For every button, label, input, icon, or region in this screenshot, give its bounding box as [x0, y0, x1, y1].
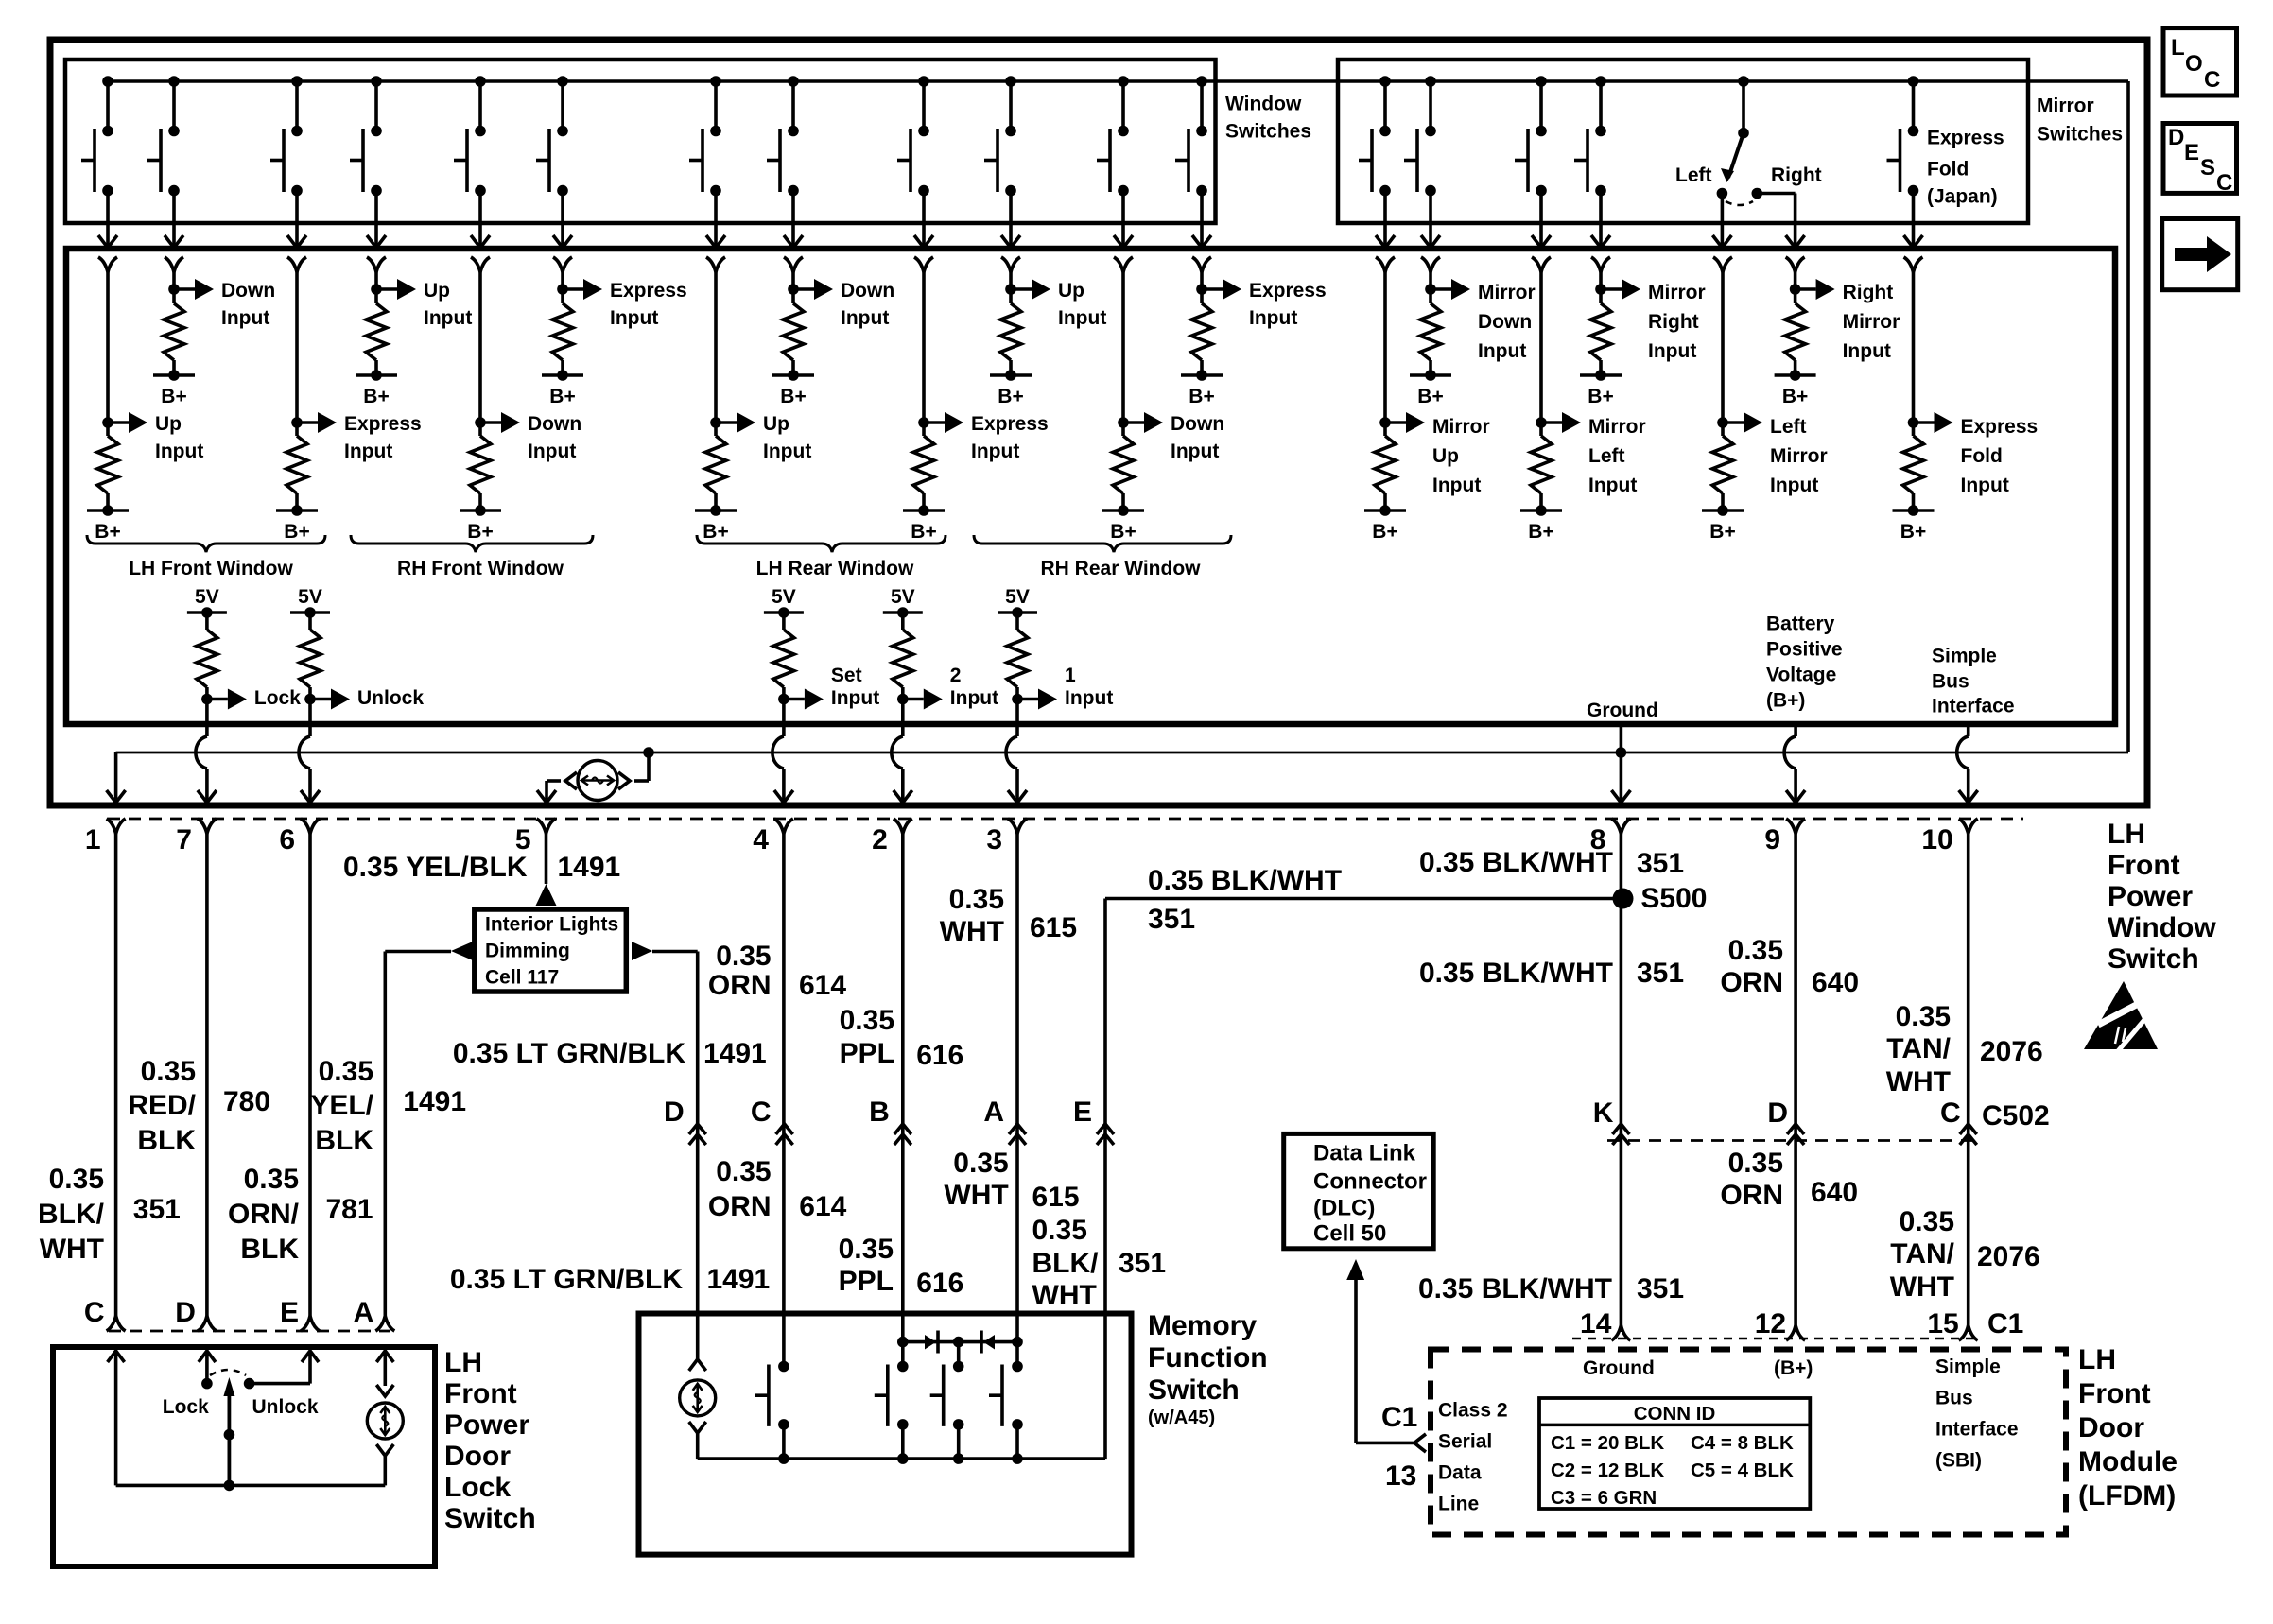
svg-text:1491: 1491: [707, 1264, 771, 1295]
svg-text:0.35: 0.35: [1728, 1148, 1783, 1179]
svg-text:Fold: Fold: [1927, 159, 1969, 181]
svg-text:14: 14: [1580, 1308, 1612, 1339]
svg-text:Power: Power: [444, 1409, 529, 1441]
svg-text:Set: Set: [831, 665, 862, 686]
svg-text:Cell 50: Cell 50: [1313, 1221, 1386, 1247]
svg-text:0.35 LT GRN/BLK: 0.35 LT GRN/BLK: [453, 1038, 685, 1069]
svg-text:0.35: 0.35: [1900, 1206, 1954, 1237]
svg-text:B+: B+: [549, 386, 575, 407]
svg-text:B+: B+: [703, 521, 728, 543]
svg-text:0.35: 0.35: [1032, 1215, 1087, 1246]
svg-text:B: B: [869, 1097, 890, 1128]
svg-text:Mirror: Mirror: [1478, 282, 1536, 303]
svg-text:Interior Lights: Interior Lights: [485, 914, 618, 936]
svg-text:Battery: Battery: [1766, 613, 1835, 635]
svg-text:2: 2: [950, 665, 962, 686]
svg-text:Input: Input: [1065, 687, 1113, 709]
svg-text:Module: Module: [2078, 1446, 2178, 1477]
svg-text:Memory: Memory: [1148, 1310, 1257, 1341]
svg-text:780: 780: [223, 1086, 270, 1117]
svg-text:RED/: RED/: [128, 1090, 196, 1121]
svg-text:Mirror: Mirror: [1588, 416, 1646, 438]
svg-text:C3 = 6 GRN: C3 = 6 GRN: [1551, 1487, 1657, 1509]
svg-text:D: D: [1767, 1097, 1788, 1129]
svg-text:13: 13: [1385, 1460, 1416, 1492]
svg-text:WHT: WHT: [944, 1180, 1008, 1211]
svg-text:B+: B+: [1782, 386, 1808, 407]
svg-text:Lock: Lock: [163, 1396, 209, 1418]
svg-text:B+: B+: [1417, 386, 1443, 407]
svg-text:Ground: Ground: [1583, 1357, 1655, 1379]
svg-text:(B+): (B+): [1774, 1357, 1813, 1379]
svg-text:12: 12: [1755, 1308, 1786, 1339]
svg-text:Interface: Interface: [1932, 696, 2015, 717]
svg-text:B+: B+: [911, 521, 936, 543]
svg-text:Up: Up: [1058, 280, 1084, 302]
svg-text:Lock: Lock: [254, 687, 301, 709]
svg-text:C502: C502: [1982, 1100, 2050, 1132]
svg-text:Voltage: Voltage: [1766, 665, 1836, 686]
svg-text:Switches: Switches: [1225, 121, 1311, 143]
svg-text:Switch: Switch: [2108, 943, 2199, 975]
svg-text:2076: 2076: [1977, 1241, 2040, 1272]
svg-text:D: D: [664, 1097, 685, 1128]
svg-text:0.35: 0.35: [716, 1156, 771, 1187]
svg-text:WHT: WHT: [1032, 1280, 1097, 1311]
svg-text:B+: B+: [780, 386, 806, 407]
svg-text:C1: C1: [1381, 1402, 1417, 1433]
svg-text:351: 351: [1637, 1273, 1684, 1304]
svg-text:Input: Input: [971, 441, 1019, 462]
svg-text:0.35 BLK/WHT: 0.35 BLK/WHT: [1419, 958, 1613, 989]
svg-text:WHT: WHT: [940, 916, 1004, 947]
svg-text:0.35: 0.35: [839, 1234, 894, 1265]
svg-text:0.35 YEL/BLK: 0.35 YEL/BLK: [343, 852, 528, 883]
svg-text:D: D: [2168, 125, 2184, 150]
svg-text:Door: Door: [2078, 1412, 2144, 1443]
svg-text:LH: LH: [2108, 819, 2145, 850]
svg-text:0.35 BLK/WHT: 0.35 BLK/WHT: [1418, 1273, 1612, 1304]
svg-text:E: E: [280, 1297, 299, 1328]
svg-text:Class 2: Class 2: [1438, 1400, 1508, 1422]
svg-text:Left: Left: [1675, 164, 1712, 186]
svg-text:Down: Down: [221, 280, 275, 302]
svg-text:C1: C1: [1987, 1308, 2023, 1339]
svg-text:Cell 117: Cell 117: [485, 967, 559, 989]
svg-text:5V: 5V: [195, 586, 219, 608]
svg-text:WHT: WHT: [40, 1234, 104, 1265]
svg-text:C5 = 4 BLK: C5 = 4 BLK: [1691, 1460, 1794, 1481]
svg-text:Mirror: Mirror: [2037, 95, 2094, 117]
svg-text:PPL: PPL: [840, 1038, 894, 1069]
svg-text:1491: 1491: [403, 1086, 466, 1117]
svg-text:Input: Input: [950, 687, 998, 709]
svg-text:B+: B+: [998, 386, 1023, 407]
svg-text:0.35: 0.35: [141, 1056, 196, 1087]
svg-text:Door: Door: [444, 1441, 511, 1472]
svg-text:Input: Input: [763, 441, 811, 462]
svg-text:ORN: ORN: [1720, 967, 1783, 998]
svg-text:Input: Input: [1478, 340, 1526, 362]
svg-text:B+: B+: [1588, 386, 1613, 407]
svg-text:B+: B+: [467, 521, 493, 543]
svg-text:351: 351: [1637, 848, 1684, 879]
svg-text:615: 615: [1032, 1182, 1080, 1213]
svg-text:614: 614: [799, 1191, 846, 1222]
svg-text:Bus: Bus: [1932, 671, 1969, 693]
svg-text:Unlock: Unlock: [357, 687, 424, 709]
svg-text:Front: Front: [2108, 850, 2180, 881]
svg-text:Window: Window: [2108, 912, 2216, 943]
svg-text:BLK/: BLK/: [38, 1199, 105, 1230]
svg-text:Mirror: Mirror: [1432, 416, 1490, 438]
svg-text:1: 1: [85, 824, 101, 855]
svg-text:Function: Function: [1148, 1342, 1268, 1373]
svg-text:Input: Input: [155, 441, 203, 462]
svg-text:5V: 5V: [1005, 586, 1030, 608]
svg-text:ORN: ORN: [708, 970, 772, 1001]
svg-text:Positive: Positive: [1766, 639, 1843, 661]
svg-text:Data: Data: [1438, 1462, 1482, 1484]
svg-text:S: S: [2200, 155, 2215, 181]
svg-text:Switches: Switches: [2037, 124, 2123, 146]
svg-text:616: 616: [916, 1040, 963, 1071]
svg-text:Up: Up: [155, 413, 182, 435]
svg-text:Input: Input: [1432, 475, 1481, 496]
svg-text:Input: Input: [1588, 475, 1637, 496]
svg-text:3: 3: [986, 824, 1002, 855]
svg-text:Mirror: Mirror: [1770, 445, 1828, 467]
svg-text:CONN ID: CONN ID: [1634, 1403, 1716, 1425]
svg-text:C4 = 8 BLK: C4 = 8 BLK: [1691, 1432, 1794, 1454]
svg-text:Dimming: Dimming: [485, 941, 570, 962]
svg-text:BLK: BLK: [240, 1234, 299, 1265]
svg-text:RH Rear Window: RH Rear Window: [1041, 558, 1202, 579]
svg-text:15: 15: [1927, 1308, 1958, 1339]
svg-text:Switch: Switch: [444, 1503, 536, 1534]
svg-text:Mirror: Mirror: [1843, 311, 1900, 333]
svg-text:B+: B+: [1709, 521, 1735, 543]
svg-text:0.35: 0.35: [1728, 935, 1783, 966]
svg-text:Input: Input: [1648, 340, 1696, 362]
svg-text:10: 10: [1921, 824, 1952, 855]
svg-text:BLK: BLK: [137, 1125, 196, 1156]
svg-text:Front: Front: [2078, 1378, 2151, 1409]
svg-text:Up: Up: [763, 413, 789, 435]
svg-text:Input: Input: [344, 441, 392, 462]
svg-text:ORN: ORN: [708, 1191, 772, 1222]
svg-text:1: 1: [1065, 665, 1076, 686]
svg-text:1491: 1491: [558, 852, 621, 883]
svg-text:Serial: Serial: [1438, 1431, 1492, 1453]
svg-text:O: O: [2185, 51, 2203, 77]
svg-text:Bus: Bus: [1935, 1388, 1973, 1409]
svg-text:(Japan): (Japan): [1927, 186, 1998, 208]
svg-text:B+: B+: [95, 521, 120, 543]
svg-text:(LFDM): (LFDM): [2078, 1480, 2176, 1512]
svg-text:Input: Input: [1058, 307, 1106, 329]
svg-text:7: 7: [176, 824, 192, 855]
svg-text:Input: Input: [424, 307, 472, 329]
svg-text:ORN/: ORN/: [228, 1199, 300, 1230]
svg-text:5V: 5V: [298, 586, 322, 608]
svg-text:2: 2: [872, 824, 888, 855]
svg-text:Down: Down: [841, 280, 894, 302]
svg-text:B+: B+: [1110, 521, 1136, 543]
svg-text:C1 = 20 BLK: C1 = 20 BLK: [1551, 1432, 1664, 1454]
svg-text:Fold: Fold: [1961, 445, 2003, 467]
svg-text:K: K: [1593, 1097, 1614, 1129]
svg-text:0.35 LT GRN/BLK: 0.35 LT GRN/BLK: [450, 1264, 683, 1295]
svg-text:Data Link: Data Link: [1313, 1141, 1416, 1166]
svg-text:Down: Down: [1171, 413, 1224, 435]
svg-text:0.35: 0.35: [244, 1164, 299, 1195]
svg-text:(B+): (B+): [1766, 690, 1805, 712]
svg-text:351: 351: [133, 1194, 181, 1225]
svg-text:Input: Input: [831, 687, 879, 709]
svg-text:640: 640: [1812, 967, 1859, 998]
svg-text:Power: Power: [2108, 881, 2193, 912]
svg-text:616: 616: [916, 1268, 963, 1299]
svg-text:LH: LH: [444, 1347, 482, 1378]
svg-text:LH Front Window: LH Front Window: [129, 558, 293, 579]
svg-text:781: 781: [326, 1194, 373, 1225]
svg-text:Simple: Simple: [1935, 1356, 2001, 1378]
svg-text:Input: Input: [1249, 307, 1297, 329]
svg-text:(SBI): (SBI): [1935, 1450, 1982, 1472]
svg-text:ORN: ORN: [1720, 1180, 1783, 1211]
svg-text:5V: 5V: [891, 586, 915, 608]
svg-text:TAN/: TAN/: [1890, 1238, 1954, 1270]
svg-text:E: E: [2184, 140, 2199, 165]
svg-text:Express: Express: [1927, 128, 2004, 149]
svg-text:0.35: 0.35: [949, 884, 1004, 915]
svg-text:A: A: [354, 1297, 374, 1328]
svg-text:B+: B+: [1372, 521, 1397, 543]
svg-text:2076: 2076: [1980, 1036, 2043, 1067]
svg-text:B+: B+: [284, 521, 309, 543]
svg-text:Window: Window: [1225, 94, 1302, 115]
svg-text:0.35: 0.35: [840, 1005, 894, 1036]
svg-text:351: 351: [1148, 904, 1195, 935]
svg-text:Simple: Simple: [1932, 646, 1997, 667]
svg-text:L: L: [2171, 35, 2185, 60]
svg-text:Switch: Switch: [1148, 1374, 1240, 1406]
svg-text:615: 615: [1030, 912, 1077, 943]
svg-text:BLK/: BLK/: [1032, 1248, 1100, 1279]
svg-text:Express: Express: [610, 280, 687, 302]
svg-text:0.35: 0.35: [953, 1148, 1008, 1179]
svg-text:C: C: [2204, 67, 2220, 93]
svg-text:(DLC): (DLC): [1313, 1196, 1375, 1221]
svg-text:C: C: [2216, 170, 2232, 196]
svg-text:YEL/: YEL/: [310, 1090, 373, 1121]
svg-text:BLK: BLK: [315, 1125, 373, 1156]
svg-text:(w/A45): (w/A45): [1148, 1408, 1215, 1428]
svg-text:Input: Input: [841, 307, 889, 329]
svg-text:C: C: [84, 1297, 105, 1328]
svg-text:WHT: WHT: [1890, 1271, 1954, 1303]
svg-text:Lock: Lock: [444, 1472, 511, 1503]
svg-text:TAN/: TAN/: [1886, 1033, 1951, 1064]
svg-text:9: 9: [1764, 824, 1780, 855]
svg-text:PPL: PPL: [839, 1266, 894, 1297]
svg-text:Express: Express: [344, 413, 422, 435]
svg-text:C: C: [751, 1097, 772, 1128]
svg-text:0.35: 0.35: [1896, 1001, 1951, 1032]
svg-text:Line: Line: [1438, 1494, 1479, 1515]
svg-text:B+: B+: [363, 386, 389, 407]
svg-text:LH: LH: [2078, 1344, 2116, 1375]
svg-text:Unlock: Unlock: [252, 1396, 319, 1418]
svg-text:640: 640: [1811, 1177, 1858, 1208]
svg-text:Right: Right: [1843, 282, 1894, 303]
svg-text:Up: Up: [424, 280, 450, 302]
svg-text:D: D: [175, 1297, 196, 1328]
svg-text:B+: B+: [1189, 386, 1214, 407]
svg-text:Input: Input: [1961, 475, 2009, 496]
svg-text:Right: Right: [1771, 164, 1822, 186]
svg-text:Connector: Connector: [1313, 1169, 1427, 1195]
svg-text:Mirror: Mirror: [1648, 282, 1706, 303]
svg-text:Input: Input: [1171, 441, 1219, 462]
svg-text:Interface: Interface: [1935, 1419, 2019, 1441]
svg-text:Up: Up: [1432, 445, 1459, 467]
svg-text:351: 351: [1119, 1248, 1166, 1279]
svg-text:0.35: 0.35: [319, 1056, 373, 1087]
svg-text:6: 6: [279, 824, 295, 855]
svg-text:B+: B+: [1900, 521, 1926, 543]
svg-text:Input: Input: [1770, 475, 1818, 496]
svg-text:Express: Express: [971, 413, 1049, 435]
svg-text:Input: Input: [1843, 340, 1891, 362]
svg-text:S500: S500: [1640, 883, 1707, 914]
svg-text:Express: Express: [1249, 280, 1327, 302]
svg-text:Right: Right: [1648, 311, 1699, 333]
svg-text:Input: Input: [528, 441, 576, 462]
svg-text:Express: Express: [1961, 416, 2039, 438]
svg-text:Ground: Ground: [1587, 700, 1658, 721]
svg-text:Down: Down: [528, 413, 581, 435]
svg-text:WHT: WHT: [1886, 1066, 1951, 1097]
svg-text:0.35: 0.35: [716, 941, 771, 972]
svg-text:C: C: [1940, 1097, 1961, 1129]
svg-text:0.35 BLK/WHT: 0.35 BLK/WHT: [1419, 847, 1613, 878]
svg-text:1491: 1491: [703, 1038, 767, 1069]
svg-text:E: E: [1073, 1097, 1092, 1128]
svg-text:4: 4: [753, 824, 769, 855]
svg-text:A: A: [983, 1097, 1004, 1128]
svg-text:5V: 5V: [772, 586, 796, 608]
svg-text:C2 = 12 BLK: C2 = 12 BLK: [1551, 1460, 1664, 1481]
svg-text:Down: Down: [1478, 311, 1532, 333]
svg-text:Left: Left: [1588, 445, 1625, 467]
svg-text:0.35: 0.35: [49, 1164, 104, 1195]
svg-text:LH Rear Window: LH Rear Window: [756, 558, 914, 579]
svg-text:0.35 BLK/WHT: 0.35 BLK/WHT: [1148, 865, 1342, 896]
svg-text:RH Front Window: RH Front Window: [397, 558, 564, 579]
svg-text:B+: B+: [161, 386, 186, 407]
svg-text:Left: Left: [1770, 416, 1807, 438]
svg-text:614: 614: [799, 970, 846, 1001]
svg-text:Input: Input: [610, 307, 658, 329]
svg-text:B+: B+: [1528, 521, 1553, 543]
svg-text:Front: Front: [444, 1378, 517, 1409]
svg-text:Input: Input: [221, 307, 269, 329]
svg-text:351: 351: [1637, 958, 1684, 989]
